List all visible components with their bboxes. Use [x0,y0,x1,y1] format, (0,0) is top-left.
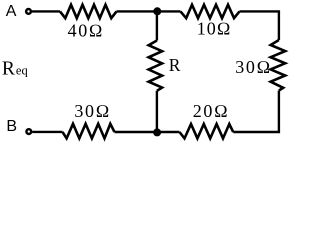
terminal B open circle [26,129,31,134]
resistor R2 10ohm zigzag [181,5,240,19]
node junction top [153,7,161,15]
wire bottom node to 30ohm [115,131,158,133]
svg-text:30Ω: 30Ω [74,101,111,121]
svg-text:40Ω: 40Ω [68,20,105,40]
resistor R middle vertical zigzag [149,41,163,91]
wire right 30ohm to bottom-right corner and left [233,91,279,133]
resistor R1 40ohm zigzag [60,5,117,19]
terminal A open circle [26,9,31,14]
resistor R3 30ohm right vertical zigzag [271,40,286,91]
svg-text:B: B [6,118,17,135]
resistor R4 30ohm bottom zigzag [63,124,115,139]
svg-text:10Ω: 10Ω [197,18,232,38]
wire 20ohm to bottom node [157,131,179,133]
svg-text:eq: eq [16,64,29,78]
wire R down to bottom node [156,91,158,132]
node junction bottom [153,128,161,136]
wire 40ohm to top node [117,10,158,12]
wire A to 40ohm [32,10,60,12]
resistor R5 20ohm zigzag [180,124,234,138]
svg-text:20Ω: 20Ω [193,101,230,121]
svg-text:R: R [169,55,181,75]
wire 10ohm to top-right corner and down [240,11,279,40]
svg-text:30Ω: 30Ω [235,57,272,77]
svg-text:R: R [2,59,15,80]
wire top node to 10ohm [157,10,181,12]
wire 30ohm to B terminal [32,131,62,133]
svg-text:A: A [6,3,17,20]
wire top node down to R [156,11,158,40]
